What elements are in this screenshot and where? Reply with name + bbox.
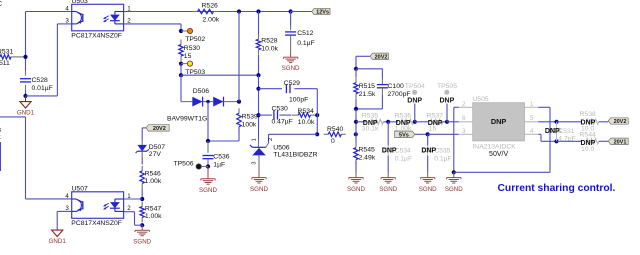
svg-text:U505: U505 [472, 96, 488, 103]
capacitor C535 DNP 0.1uF [421, 134, 451, 172]
capacitor C530 0.47uF [259, 106, 293, 126]
ground SGND under C534 [379, 172, 397, 193]
svg-text:100pF: 100pF [289, 97, 308, 104]
svg-text:0: 0 [331, 138, 335, 145]
svg-text:DNP: DNP [363, 120, 378, 127]
node C529 left [256, 87, 260, 91]
svg-text:TP506: TP506 [174, 160, 194, 167]
svg-text:DNP: DNP [396, 120, 411, 127]
svg-text:R531: R531 [0, 49, 13, 56]
svg-text:R534: R534 [298, 108, 314, 115]
svg-text:BAV99WT1G: BAV99WT1G [167, 116, 207, 123]
svg-text:10.0: 10.0 [581, 146, 594, 153]
node C530 left [256, 113, 260, 117]
svg-text:DNP: DNP [581, 140, 596, 147]
svg-text:R537: R537 [427, 112, 443, 119]
svg-text:21.5k: 21.5k [359, 91, 376, 98]
wire vertical R531/C528 column [25, 12, 27, 96]
svg-text:SGND: SGND [445, 186, 463, 193]
svg-text:D506: D506 [193, 88, 209, 95]
svg-text:20V2: 20V2 [153, 126, 166, 132]
svg-text:1: 1 [127, 193, 131, 200]
svg-text:0.1µF: 0.1µF [395, 156, 413, 163]
node rail/R528 branch [256, 9, 260, 13]
resistor R540 0 [324, 126, 346, 145]
svg-text:6: 6 [462, 115, 466, 122]
wire R530 node down [180, 64, 182, 76]
optocoupler U503 PC817X4NSZ0F [65, 0, 131, 40]
svg-text:DNP: DNP [421, 148, 436, 155]
svg-text:511: 511 [0, 60, 10, 67]
svg-text:15: 15 [184, 53, 192, 60]
node R534 right [315, 113, 319, 117]
wire down to D506 anode [181, 75, 192, 101]
wire TL431 cathode column [258, 75, 260, 141]
svg-text:50V/V: 50V/V [489, 151, 508, 158]
capacitor C529 100pF [259, 80, 318, 104]
svg-text:TL431BIDBZR: TL431BIDBZR [273, 152, 317, 159]
svg-text:5Vs: 5Vs [399, 132, 409, 138]
resistor R515 21.5k [354, 69, 376, 109]
svg-text:TP504: TP504 [405, 83, 425, 90]
capacitor C534 DNP 0.1uF [382, 122, 412, 172]
wire 12Vs rail to D506 cathode [238, 12, 240, 102]
wire U503 pin2 to TP502 node [124, 24, 181, 31]
node R547 bottom / U507 pin2 / SGND [140, 223, 144, 227]
diode D506 BAV99WT1G [167, 88, 239, 122]
capacitor C531 DNP 4.7pF [545, 122, 576, 143]
node rail/D506 branch [237, 9, 241, 13]
wire pin6 row [447, 121, 459, 123]
capacitor C100 2700pF [356, 79, 411, 109]
svg-text:GND1: GND1 [49, 238, 67, 245]
svg-text:100k: 100k [242, 122, 257, 129]
testpoint TP504 DNP [405, 83, 425, 122]
ground SGND under R545 [347, 172, 365, 193]
resistor R530 15 [179, 40, 200, 62]
node TP506/SGND [206, 164, 210, 168]
resistor R539 100k [237, 108, 258, 132]
svg-text:U503: U503 [72, 0, 88, 5]
svg-text:20V1: 20V1 [614, 139, 627, 145]
wire divider column [355, 109, 357, 145]
wire cross row to R528 bottom [181, 74, 259, 76]
svg-text:INA213AIDCK: INA213AIDCK [472, 144, 516, 151]
svg-text:C531: C531 [558, 128, 574, 135]
svg-text:4: 4 [65, 5, 69, 12]
resistor R545 2.49k [354, 143, 376, 172]
svg-text:1.00k: 1.00k [145, 213, 162, 220]
svg-text:D507: D507 [149, 144, 165, 151]
svg-text:DNP: DNP [440, 97, 455, 104]
svg-text:DNP: DNP [545, 128, 560, 135]
svg-text:C528: C528 [32, 77, 48, 84]
wire U507 pin3 to GND1 [57, 211, 71, 230]
resistor R526 2.00k [193, 3, 220, 24]
svg-text:1: 1 [251, 138, 257, 141]
svg-text:20V2: 20V2 [614, 119, 627, 125]
svg-text:0.01µF: 0.01µF [32, 85, 53, 92]
svg-text:R547: R547 [145, 206, 161, 213]
wire U505 pin2 to ground column [454, 107, 459, 172]
wire 5Vs to U505 pin3 [428, 133, 459, 135]
node rail/C512 branch [289, 9, 293, 13]
svg-text:27V: 27V [149, 151, 162, 158]
resistor R535 DNP 30.1k [356, 112, 388, 132]
svg-text:C: C [0, 0, 2, 8]
testpoint TP502 [181, 28, 205, 43]
wire U505 pin1 REF loop [454, 107, 550, 172]
wire U503 pin4 to node [26, 11, 72, 13]
node REF/GND join [452, 170, 456, 174]
testpoint TP506 [174, 160, 209, 169]
svg-text:PC817X4NSZ0F: PC817X4NSZ0F [71, 33, 122, 40]
svg-text:SGND: SGND [250, 186, 268, 193]
wire cut component at left edge [0, 142, 1, 171]
node TP502 [179, 29, 183, 33]
svg-text:4: 4 [530, 128, 534, 135]
resistor R547 1.00k [140, 202, 162, 223]
svg-text:5: 5 [530, 115, 534, 122]
wire R539 bottom row [208, 127, 239, 141]
svg-text:0.47µF: 0.47µF [272, 119, 293, 126]
svg-text:DNP: DNP [491, 117, 507, 126]
svg-text:2: 2 [268, 138, 274, 141]
node R531/C528/U503 [23, 55, 27, 59]
svg-text:3: 3 [462, 128, 466, 135]
node R530/R528 row [179, 73, 183, 77]
power flag 20V1 right [608, 138, 628, 144]
resistor R546 1.00k [140, 157, 162, 200]
node R536/R537/TP504 [413, 120, 417, 124]
svg-text:SGND: SGND [379, 186, 397, 193]
capacitor C512 0.1uF [285, 12, 315, 52]
svg-text:2: 2 [462, 101, 466, 108]
wire left net to U507 pin4 [0, 117, 72, 199]
resistor R538 DNP 10.0 [557, 111, 609, 133]
wire C529 right down to ref row [316, 89, 318, 135]
svg-text:R535: R535 [362, 112, 378, 119]
node R535/R536/C534 [386, 120, 390, 124]
svg-text:R540: R540 [327, 126, 343, 133]
node R535 left [354, 120, 358, 124]
ground SGND under C512 [282, 52, 300, 73]
svg-text:R546: R546 [145, 170, 161, 177]
wire U507 pin1 [124, 198, 143, 200]
svg-text:R526: R526 [202, 3, 218, 10]
ground SGND under C535 [419, 172, 437, 193]
node R537/TP505/U505 pin6 [445, 120, 449, 124]
svg-text:R545: R545 [359, 146, 375, 153]
node R546/R547/U507 pin1 [140, 197, 144, 201]
svg-text:1: 1 [127, 5, 131, 12]
wire 20V2 column [355, 56, 357, 69]
svg-text:DNP: DNP [428, 120, 443, 127]
svg-text:C534: C534 [395, 148, 411, 155]
svg-text:DNP: DNP [382, 148, 397, 155]
node R528 bottom [256, 73, 260, 77]
svg-text:C100: C100 [388, 83, 404, 90]
ground SGND under R547 [133, 225, 151, 245]
svg-text:1.00k: 1.00k [145, 178, 162, 185]
svg-text:C530: C530 [272, 106, 288, 113]
svg-text:SGND: SGND [347, 186, 365, 193]
svg-text:GND1: GND1 [17, 110, 35, 117]
svg-text:1: 1 [530, 101, 534, 108]
svg-text:20V2: 20V2 [375, 54, 388, 60]
ground SGND under U505 pin2 [445, 172, 463, 193]
wire U505 pin4 jog to R544 node [538, 134, 556, 141]
svg-text:R538: R538 [580, 111, 596, 118]
svg-text:10.0k: 10.0k [298, 119, 315, 126]
svg-text:SGND: SGND [419, 186, 437, 193]
node C536 top [206, 139, 210, 143]
svg-text:SGND: SGND [133, 239, 151, 246]
resistor R534 10.0k [292, 108, 317, 126]
node C528/GND1 [23, 94, 27, 98]
resistor R536 DNP 1.00k [388, 112, 415, 132]
node pin5/C531/R538 [554, 120, 558, 124]
svg-text:2: 2 [127, 205, 131, 212]
optocoupler U507 PC817X4NSZ0F [65, 186, 131, 228]
node ref row tap [315, 132, 319, 136]
svg-text:C535: C535 [434, 148, 450, 155]
svg-text:1µF: 1µF [213, 162, 225, 169]
svg-text:C536: C536 [213, 154, 229, 161]
resistor R531 511 [0, 49, 26, 67]
ground GND1 bottom [52, 230, 63, 236]
svg-text:SGND: SGND [282, 65, 300, 72]
svg-text:SGND: SGND [199, 187, 217, 194]
capacitor C536 1uF [203, 141, 230, 169]
wire TL431 ref row [269, 133, 318, 135]
svg-text:TP505: TP505 [437, 83, 457, 90]
svg-text:R530: R530 [184, 45, 200, 52]
node D506 cathode/R539 [237, 100, 241, 104]
svg-text:R528: R528 [261, 38, 277, 45]
op-amp U505 INA213AIDCK DNP [459, 96, 539, 158]
svg-text:DNP: DNP [581, 119, 596, 126]
svg-text:C529: C529 [284, 80, 300, 87]
ground SGND under U506 [250, 172, 268, 193]
resistor R528 10.0k [256, 12, 278, 76]
power flag 5Vs [395, 131, 428, 138]
svg-text:4: 4 [65, 193, 69, 200]
wire C100 top branch [356, 69, 382, 79]
svg-text:PC817X4NSZ0F: PC817X4NSZ0F [71, 220, 122, 227]
wire net 12Vs top rail [124, 11, 307, 13]
text fragment cut labels at left edge [0, 127, 1, 141]
svg-text:U506: U506 [273, 144, 289, 151]
svg-text:10.0k: 10.0k [261, 46, 278, 53]
node R515 bottom [354, 107, 358, 111]
wire D506 mid down [207, 102, 209, 141]
ground SGND under C536 [199, 167, 217, 195]
node D506 mid junction [206, 100, 209, 103]
wire GND1 net to U503 pin3 [26, 24, 72, 96]
testpoint TP505 DNP [437, 83, 457, 122]
wire U507 pin2 jog [124, 212, 143, 226]
power flag 20V2 right [608, 118, 628, 124]
power flag 20V2 at R515 [356, 53, 389, 60]
wire U505 pin5 to R538 node [538, 121, 556, 123]
zener diode D507 27V [136, 128, 166, 158]
svg-text:R515: R515 [359, 83, 375, 90]
svg-text:Current sharing control.: Current sharing control. [498, 183, 616, 194]
node R540 right on 20V2 divider column [354, 132, 358, 136]
svg-text:3: 3 [65, 18, 69, 25]
node pin4/C531/R544 [554, 139, 558, 143]
svg-text:12Vs: 12Vs [316, 10, 329, 16]
svg-text:0.1µF: 0.1µF [434, 156, 452, 163]
resistor R537 DNP 15 [415, 112, 447, 132]
node 5Vs/C535 [426, 132, 430, 136]
ground GND1 top [17, 96, 35, 117]
svg-text:C512: C512 [297, 30, 313, 37]
power flag 12Vs [291, 8, 330, 15]
resistor R544 DNP 10.0 [557, 131, 609, 153]
svg-text:U507: U507 [72, 186, 88, 193]
node R515/C100 top [354, 67, 358, 71]
shunt regulator U506 TL431BIDBZR [250, 134, 318, 172]
svg-text:R536: R536 [395, 112, 411, 119]
node TP503 [179, 62, 183, 66]
testpoint TP503 [181, 61, 205, 76]
svg-text:TP502: TP502 [185, 36, 205, 43]
svg-text:0.1µF: 0.1µF [297, 40, 315, 47]
svg-text:DNP: DNP [407, 97, 422, 104]
svg-text:R539: R539 [242, 113, 258, 120]
svg-text:R544: R544 [580, 131, 596, 138]
capacitor C528 0.01uF [20, 77, 53, 92]
power flag 20V2 at D507 [142, 125, 169, 132]
svg-text:2.49k: 2.49k [359, 154, 376, 161]
svg-text:2.00k: 2.00k [203, 17, 220, 24]
